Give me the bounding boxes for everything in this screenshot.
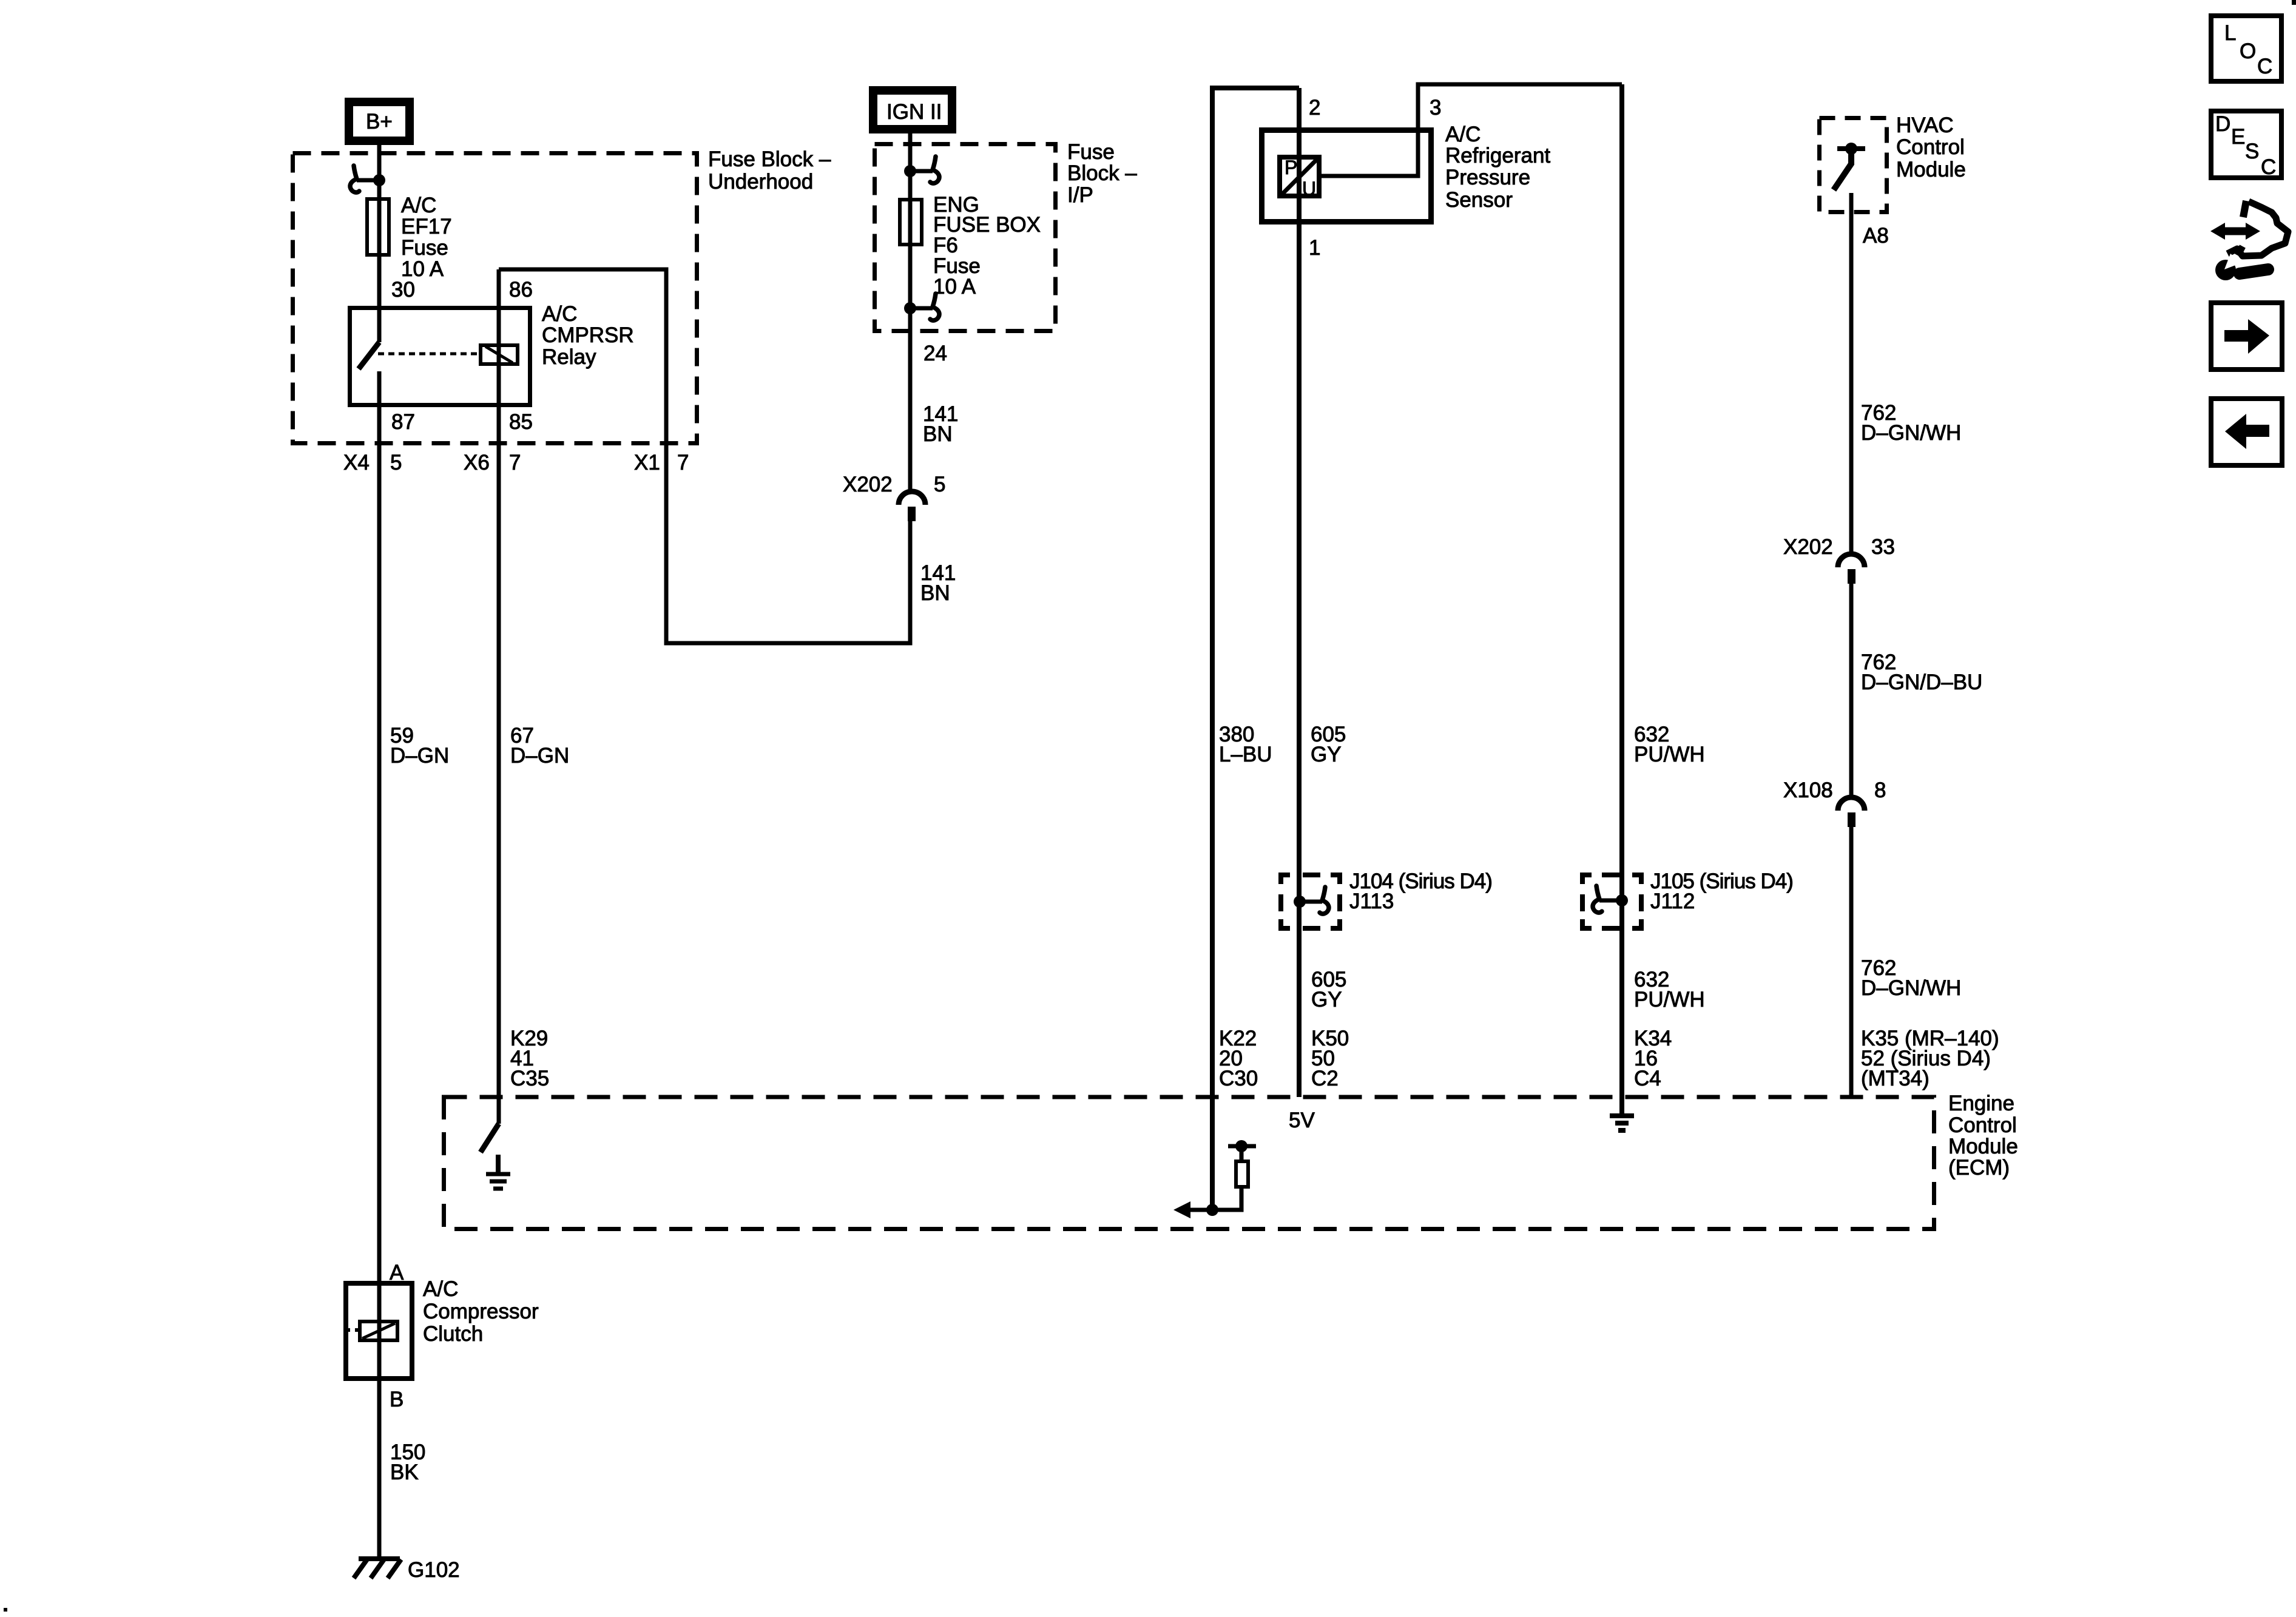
wire relay 87 down to clutch xyxy=(377,371,382,1557)
icon component view (arrow + outline + wrench) xyxy=(2210,201,2288,280)
svg-text:X1: X1 xyxy=(634,451,660,474)
svg-text:C2: C2 xyxy=(1311,1067,1339,1090)
node B+ xyxy=(349,102,410,141)
svg-text:B+: B+ xyxy=(366,110,393,133)
svg-text:Control: Control xyxy=(1896,135,1965,159)
svg-text:A/C: A/C xyxy=(401,194,436,217)
engine control module dashed box xyxy=(444,1097,1934,1229)
svg-text:D–GN/D–BU: D–GN/D–BU xyxy=(1861,670,1982,694)
ECM switch to ground (K29) xyxy=(481,1124,510,1189)
HVAC control module dashed box xyxy=(1820,118,1887,212)
svg-text:EF17: EF17 xyxy=(401,215,452,238)
svg-text:CMPRSR: CMPRSR xyxy=(542,323,634,347)
sensor output line xyxy=(1321,84,1622,176)
svg-text:(ECM): (ECM) xyxy=(1948,1156,2010,1180)
splice J105 xyxy=(1580,873,1644,931)
icon DESC xyxy=(2211,111,2281,179)
svg-text:BN: BN xyxy=(923,422,953,446)
svg-text:HVAC: HVAC xyxy=(1896,113,1954,137)
svg-text:C: C xyxy=(2261,155,2276,179)
svg-text:C: C xyxy=(2257,55,2272,78)
fuse F6 xyxy=(900,200,922,245)
wire coil 86/85 vertical xyxy=(497,269,501,1124)
svg-text:Fuse: Fuse xyxy=(1067,140,1115,164)
relay actuation dashed line xyxy=(378,353,479,356)
svg-text:3: 3 xyxy=(1430,96,1441,120)
svg-text:O: O xyxy=(2240,39,2256,63)
svg-text:L–BU: L–BU xyxy=(1219,743,1272,766)
A/C compressor clutch box xyxy=(346,1283,412,1379)
svg-text:BK: BK xyxy=(390,1460,419,1484)
svg-text:X6: X6 xyxy=(464,451,490,474)
svg-text:X4: X4 xyxy=(343,451,370,474)
svg-text:U: U xyxy=(1302,178,1316,200)
wire 86 top route to X1 xyxy=(499,269,910,643)
svg-text:I/P: I/P xyxy=(1067,183,1093,207)
svg-text:A/C: A/C xyxy=(1445,123,1481,146)
wire A8 down xyxy=(1849,193,1854,554)
svg-text:8: 8 xyxy=(1874,778,1886,802)
svg-text:24: 24 xyxy=(923,342,947,365)
svg-text:Fuse Block –: Fuse Block – xyxy=(708,147,831,171)
svg-text:Underhood: Underhood xyxy=(708,170,813,194)
svg-text:D–GN/WH: D–GN/WH xyxy=(1861,421,1961,445)
svg-text:PU/WH: PU/WH xyxy=(1634,743,1705,766)
svg-text:86: 86 xyxy=(509,278,533,302)
svg-text:GY: GY xyxy=(1311,743,1342,766)
svg-text:BN: BN xyxy=(920,581,950,605)
svg-text:IGN II: IGN II xyxy=(886,100,942,124)
svg-text:30: 30 xyxy=(391,278,415,302)
A/C refrigerant pressure sensor box xyxy=(1262,130,1431,222)
svg-text:Engine: Engine xyxy=(1948,1092,2014,1115)
svg-text:B: B xyxy=(390,1388,403,1411)
svg-text:D–GN: D–GN xyxy=(510,744,569,768)
svg-text:10 A: 10 A xyxy=(933,275,976,299)
terminal hook at B+ feed xyxy=(350,166,385,192)
svg-text:7: 7 xyxy=(509,451,521,474)
wire 380 L-BU vertical xyxy=(1212,88,1299,1210)
svg-text:E: E xyxy=(2231,125,2245,149)
svg-text:D–GN/WH: D–GN/WH xyxy=(1861,976,1961,1000)
terminal hook top xyxy=(904,157,939,183)
svg-text:Compressor: Compressor xyxy=(423,1300,539,1323)
svg-text:G102: G102 xyxy=(408,1558,460,1582)
svg-text:D: D xyxy=(2215,112,2230,136)
svg-text:87: 87 xyxy=(391,410,415,434)
wire 632 PU/WH vertical xyxy=(1619,84,1624,1113)
relay coil xyxy=(481,345,518,364)
page corner marks xyxy=(2292,0,2296,5)
svg-text:7: 7 xyxy=(677,451,689,474)
P/U transducer xyxy=(1280,157,1319,196)
svg-text:C30: C30 xyxy=(1219,1067,1258,1090)
ECM ground (K34) xyxy=(1610,1116,1634,1130)
relay A/C CMPRSR box xyxy=(350,308,530,405)
svg-text:2: 2 xyxy=(1309,96,1320,120)
svg-text:Refrigerant: Refrigerant xyxy=(1445,144,1550,167)
wire B+ to relay pin30 xyxy=(377,145,382,342)
node IGN II xyxy=(873,90,952,129)
wire 605 GY vertical (sensor pin2/pin1 through) xyxy=(1297,88,1302,1097)
svg-text:P: P xyxy=(1285,157,1297,178)
wire IGN II down xyxy=(908,129,913,491)
ECM internal resistor + arrow (K22) xyxy=(1173,1140,1256,1218)
svg-text:X108: X108 xyxy=(1783,778,1833,802)
svg-text:J112: J112 xyxy=(1650,890,1695,913)
wire below X202-5 xyxy=(908,521,913,643)
fuse EF17 xyxy=(367,199,389,255)
svg-text:Module: Module xyxy=(1896,158,1966,181)
svg-text:Module: Module xyxy=(1948,1135,2018,1158)
svg-text:(MT34): (MT34) xyxy=(1861,1067,1930,1090)
svg-text:C35: C35 xyxy=(510,1067,549,1090)
svg-text:S: S xyxy=(2245,140,2259,163)
svg-text:PU/WH: PU/WH xyxy=(1634,988,1705,1011)
svg-text:A/C: A/C xyxy=(423,1277,458,1301)
icon prev arrow xyxy=(2211,399,2282,465)
relay switch lever xyxy=(359,342,379,369)
svg-text:5: 5 xyxy=(934,473,945,496)
svg-text:GY: GY xyxy=(1311,988,1342,1011)
icon LOC xyxy=(2211,16,2281,81)
svg-text:C4: C4 xyxy=(1634,1067,1661,1090)
fuse block underhood dashed box xyxy=(293,154,697,444)
svg-text:Pressure: Pressure xyxy=(1445,166,1530,189)
svg-text:A/C: A/C xyxy=(542,302,577,326)
svg-text:Fuse: Fuse xyxy=(401,236,448,260)
svg-text:D–GN: D–GN xyxy=(390,744,449,768)
svg-text:5: 5 xyxy=(390,451,402,474)
svg-text:Clutch: Clutch xyxy=(423,1322,483,1346)
ground G102 xyxy=(354,1559,401,1578)
svg-text:Sensor: Sensor xyxy=(1445,188,1513,212)
svg-text:J113: J113 xyxy=(1349,890,1394,913)
splice J104 xyxy=(1278,873,1342,931)
svg-text:Block –: Block – xyxy=(1067,161,1137,185)
clutch coil xyxy=(360,1322,397,1340)
terminal hook bottom xyxy=(904,294,939,320)
svg-text:85: 85 xyxy=(509,410,533,434)
svg-text:Control: Control xyxy=(1948,1113,2017,1137)
svg-text:Relay: Relay xyxy=(542,345,596,369)
svg-text:1: 1 xyxy=(1309,236,1320,260)
svg-text:A8: A8 xyxy=(1863,224,1889,248)
svg-text:L: L xyxy=(2224,21,2236,45)
svg-text:33: 33 xyxy=(1871,535,1895,559)
svg-text:X202: X202 xyxy=(1783,535,1833,559)
fuse block I/P dashed box xyxy=(875,144,1056,331)
svg-text:5V: 5V xyxy=(1289,1109,1315,1132)
icon next arrow xyxy=(2211,303,2282,370)
HVAC internal switch xyxy=(1834,143,1865,190)
svg-text:X202: X202 xyxy=(843,473,893,496)
